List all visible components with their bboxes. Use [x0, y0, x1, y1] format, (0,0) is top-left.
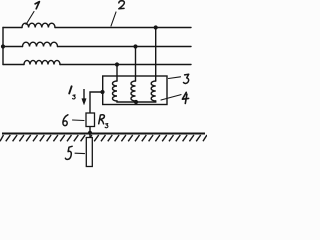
- label I3 (ground current): [69, 86, 71, 93]
- label 1: [35, 2, 39, 9]
- leader for label 6: [73, 119, 85, 122]
- node dot on box left edge: [100, 90, 104, 94]
- wire grounding conductor from box: [90, 92, 103, 113]
- inductor coil on line L2: [23, 42, 58, 46]
- label 5: [65, 146, 72, 159]
- wire neutral bus 4 (star point): [117, 101, 156, 102]
- leader for label 5: [75, 152, 85, 154]
- label 6: [63, 115, 68, 126]
- node dot on left bus at L2: [1, 44, 5, 48]
- earth hatching: [0, 135, 207, 141]
- winding C (right coil in box): [151, 81, 156, 101]
- label 4: [182, 92, 188, 103]
- node dot L3 / drop A: [115, 62, 119, 66]
- node dot star point: [134, 100, 138, 104]
- wire drop from L2 to winding B: [135, 47, 137, 82]
- label 2: [119, 1, 125, 9]
- wire left vertical bus: [2, 28, 4, 65]
- wire phase line L1: [3, 27, 191, 29]
- wire phase line L2: [3, 46, 191, 48]
- enclosure box 3: [103, 76, 167, 105]
- wire drop from L3 to winding A: [116, 65, 118, 82]
- inductor 1 (top line coil): [22, 23, 55, 27]
- winding B (middle coil in box): [131, 81, 136, 101]
- wire drop from L1 to winding C: [155, 28, 157, 82]
- label R3 (ground resistance): [99, 115, 105, 124]
- winding A (left coil in box): [113, 81, 118, 101]
- leader for label 4: [161, 95, 181, 100]
- inductor coil on line L3: [24, 60, 60, 64]
- leader for label 1: [26, 12, 34, 25]
- current arrow I3: [82, 89, 86, 105]
- wire phase line L3: [3, 64, 191, 66]
- ground electrode 5: [86, 138, 92, 167]
- leader for label 2: [111, 12, 116, 26]
- label 3: [184, 74, 189, 83]
- node dot at earth junction: [88, 131, 92, 135]
- resistor R3: [86, 113, 95, 127]
- node dot L2 / drop B: [133, 44, 137, 48]
- node dot L1 / drop C: [154, 25, 158, 29]
- wire resistor bottom to earth: [89, 127, 91, 138]
- earth surface line: [2, 133, 205, 135]
- leader for label 3: [169, 77, 181, 79]
